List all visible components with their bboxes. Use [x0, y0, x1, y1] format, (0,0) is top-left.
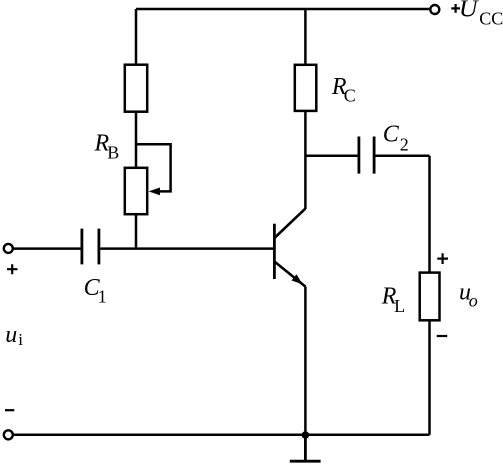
svg-text:C: C	[383, 122, 400, 148]
svg-text:B: B	[107, 143, 119, 163]
svg-text:i: i	[18, 330, 23, 349]
svg-text:u: u	[5, 322, 17, 348]
svg-text:2: 2	[400, 134, 409, 154]
svg-text:1: 1	[98, 286, 107, 306]
svg-text:CC: CC	[479, 9, 503, 29]
svg-text:L: L	[394, 296, 405, 316]
svg-text:U: U	[459, 0, 479, 22]
svg-text:o: o	[469, 291, 478, 311]
svg-text:C: C	[344, 86, 356, 106]
